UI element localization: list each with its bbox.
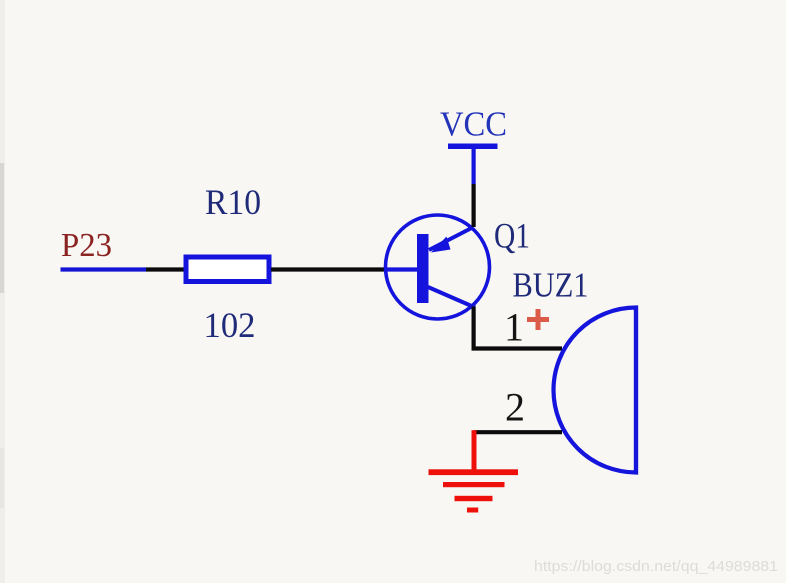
svg-text:2: 2 — [505, 385, 525, 430]
wire VCC stem black segment — [472, 184, 476, 227]
svg-text:1: 1 — [504, 305, 524, 350]
svg-text:102: 102 — [204, 305, 256, 345]
wire collector down to buzzer pin 1 — [474, 307, 562, 349]
wire resistor to transistor base — [271, 267, 387, 271]
wire ground to buzzer pin 2 — [474, 430, 562, 434]
ground bar 4 — [467, 508, 478, 513]
svg-text:P23: P23 — [61, 227, 112, 264]
buzzer pin 1 polarity + — [527, 309, 549, 330]
VCC power bar — [448, 144, 498, 150]
svg-text:BUZ1: BUZ1 — [513, 266, 589, 305]
ground bar 1 — [429, 469, 519, 475]
svg-text:R10: R10 — [205, 182, 261, 222]
transistor Q1 circle — [386, 215, 490, 319]
svg-text:https://blog.csdn.net/qq_44989: https://blog.csdn.net/qq_44989881 — [534, 559, 778, 575]
ground bar 3 — [455, 496, 493, 501]
transistor Q1 emitter line — [429, 227, 474, 250]
svg-text:VCC: VCC — [440, 105, 507, 144]
wire P23 black segment — [146, 267, 184, 271]
transistor Q1 emitter arrow (PNP, pointing into base) — [431, 237, 451, 253]
ground bar 2 — [443, 482, 505, 487]
ground stem (red) — [472, 430, 477, 470]
wire VCC stem blue segment — [472, 148, 476, 184]
resistor R1 body — [186, 257, 269, 282]
svg-text:Q1: Q1 — [494, 216, 530, 256]
wire P23 blue segment — [61, 267, 147, 271]
transistor Q1 base lead (inside circle) — [386, 267, 417, 271]
buzzer BUZ1 body (half circle) — [554, 308, 637, 473]
transistor Q1 base bar — [417, 234, 429, 303]
left edge artifact band — [0, 0, 5, 583]
transistor Q1 collector line — [428, 287, 475, 308]
